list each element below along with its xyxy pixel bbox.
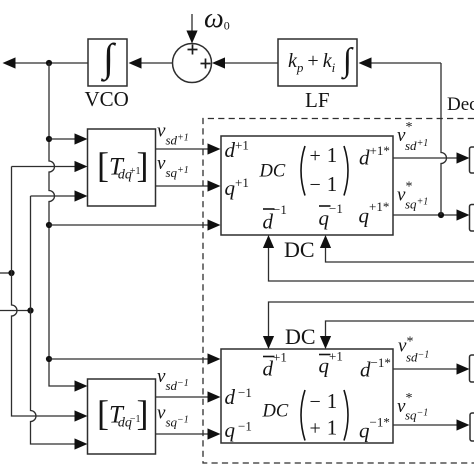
- arrow into LF: [359, 57, 372, 68]
- arrow feedback down into d+1bar pin: [263, 336, 274, 349]
- wire feedback into q-1bar of DC cell +1: [326, 247, 474, 262]
- node theta to DC cell +1: [46, 222, 52, 228]
- wire DC cell +1 output v*_sq+1 to LPF2: [393, 214, 457, 216]
- svg-text:v*sd−1: v*sd−1: [398, 335, 429, 365]
- block Tdq-1 transform box: [88, 379, 156, 454]
- arrow into Tdq+1 pin2: [75, 161, 88, 172]
- decoupling network dashed boundary: [203, 119, 474, 464]
- matrix parens cell -1: [301, 390, 348, 441]
- block LPF3 box (clipped): [470, 355, 474, 382]
- wire theta into Tdq+1 input 1: [49, 138, 75, 140]
- node theta to DC cell -1: [46, 356, 52, 362]
- arrow into LPF2: [457, 209, 470, 220]
- wire theta output from VCO to left edge: [16, 62, 89, 64]
- wire feedback into d+1bar of DC cell -1: [269, 302, 474, 337]
- label d+1bar top of cell -1: [263, 356, 275, 358]
- arrow omega0 down into summing node: [186, 31, 197, 44]
- node input B junction: [27, 307, 33, 313]
- block LPF4 box (clipped): [470, 413, 474, 441]
- wire Tdq-1 output v_sd-1: [156, 396, 208, 398]
- node input A junction: [8, 270, 14, 276]
- label q+1bar top of cell -1: [319, 354, 331, 356]
- arrow into Tdq-1 pin1: [75, 380, 88, 391]
- wire theta into DC cell +1: [49, 224, 208, 226]
- svg-text:DC: DC: [284, 237, 315, 262]
- wire vertical bus A with hop over input B line: [12, 167, 75, 417]
- block DC decoupling cell -1 box: [221, 349, 393, 443]
- svg-text:DC: DC: [285, 324, 316, 349]
- svg-text:v*sq+1: v*sq+1: [397, 180, 428, 212]
- svg-text:vsd+1: vsd+1: [157, 121, 189, 148]
- label plus top inside summing node: [188, 45, 198, 55]
- wire LF input: [371, 62, 441, 64]
- arrow into Tdq+1 pin3: [75, 190, 88, 201]
- arrow into LPF1: [457, 152, 470, 163]
- arrow q+1 into DC cell +1: [208, 180, 221, 191]
- arrow theta into DC cell -1: [208, 353, 221, 364]
- arrow d+1 into DC cell +1: [208, 143, 221, 154]
- wire LF output to summing node: [225, 62, 278, 64]
- block DC decoupling cell +1 box: [221, 136, 393, 235]
- wire vertical bus B with hop over Tdq-1 input 2 line: [31, 196, 75, 444]
- node q+1* feedback tap: [438, 212, 444, 218]
- arrow theta into DC cell +1: [208, 219, 221, 230]
- wire omega0 drop into summing node: [191, 14, 193, 31]
- arrow into Tdq-1 pin3: [75, 438, 88, 449]
- wire Tdq-1 output v_sq-1: [156, 433, 208, 435]
- wire bus B top branch into Tdq+1 input 3: [31, 195, 75, 197]
- wire summing node output to VCO: [142, 62, 173, 64]
- svg-text:DC: DC: [262, 402, 289, 422]
- svg-text:v*sd+1: v*sd+1: [397, 120, 428, 153]
- wire input v_alpha stub from left edge: [0, 272, 12, 274]
- wire input v_beta stub from left edge: [0, 310, 31, 312]
- wire DC cell -1 output v*_sd-1 to LPF3: [393, 368, 457, 370]
- arrow into VCO: [129, 57, 142, 68]
- arrow into LPF4: [457, 419, 470, 430]
- wire feedback vertical from LF input down to v*_sq+1 with hop: [441, 63, 447, 215]
- summing node circle: [173, 44, 212, 83]
- arrow q-1 into DC cell -1: [208, 428, 221, 439]
- node theta to Tdq+1: [46, 136, 52, 142]
- svg-text:vsq−1: vsq−1: [157, 403, 189, 430]
- arrow feedback down into q+1bar pin: [320, 336, 331, 349]
- svg-text:Deco: Deco: [447, 94, 474, 115]
- arrow theta output left: [3, 57, 16, 68]
- arrow into LPF3: [457, 363, 470, 374]
- matrix parens cell +1: [301, 146, 348, 196]
- wire theta into DC cell -1: [49, 358, 208, 360]
- svg-text:DC: DC: [259, 162, 286, 182]
- wire feedback into q+1bar of DC cell -1: [326, 321, 474, 337]
- wire DC cell -1 output v*_sq-1 to LPF4: [393, 424, 457, 426]
- wire Tdq+1 output v_sq+1: [156, 185, 208, 187]
- arrow into Tdq+1 pin1: [75, 133, 88, 144]
- arrow into summing node: [212, 57, 225, 68]
- arrow into Tdq-1 pin2: [75, 410, 88, 421]
- node theta junction on VCO output: [46, 60, 52, 66]
- svg-text:vsd−1: vsd−1: [157, 366, 189, 393]
- arrow d-1 into DC cell -1: [208, 391, 221, 402]
- label d-1bar bottom of cell +1: [263, 208, 275, 210]
- label plus right inside summing node: [201, 59, 211, 69]
- block LPF2 box (clipped): [470, 205, 474, 232]
- wire DC cell +1 output v*_sd+1 to LPF1: [393, 157, 457, 159]
- wire Tdq+1 output v_sd+1: [156, 148, 208, 150]
- block Tdq+1 transform box: [88, 129, 156, 206]
- wire feedback into d-1bar of DC cell +1: [269, 247, 474, 281]
- wire bus A top branch into Tdq+1 input 2: [12, 166, 75, 168]
- arrow feedback up into q-1bar pin: [320, 235, 331, 248]
- label q-1bar bottom of cell +1: [319, 205, 331, 207]
- svg-text:vsq+1: vsq+1: [157, 153, 189, 180]
- block VCO integrator box: [88, 39, 127, 86]
- arrow feedback up into d-1bar pin: [263, 235, 274, 248]
- block LPF1 box (clipped): [470, 147, 474, 173]
- svg-text:ω0: ω0: [204, 3, 230, 34]
- svg-text:v*sq−1: v*sq−1: [397, 391, 428, 423]
- block LF PI box: [278, 39, 357, 86]
- svg-text:LF: LF: [305, 88, 330, 112]
- wire theta vertical bus with hops over vsd+1 and vsq+1 feed lines: [49, 63, 75, 386]
- svg-text:VCO: VCO: [85, 87, 129, 111]
